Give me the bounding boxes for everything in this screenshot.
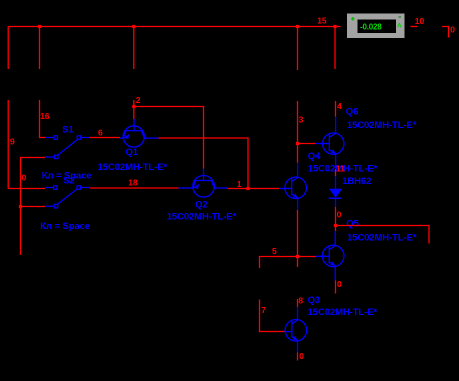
svg-text:0: 0 — [22, 173, 27, 183]
svg-text:-0.028: -0.028 — [360, 22, 382, 31]
svg-text:15C02MH-TL-E*: 15C02MH-TL-E* — [308, 307, 378, 318]
svg-text:5: 5 — [272, 246, 277, 256]
svg-text:Кл = Space: Кл = Space — [40, 221, 90, 232]
svg-text:2: 2 — [136, 95, 141, 105]
svg-text:10: 10 — [415, 16, 425, 26]
svg-text:15: 15 — [317, 16, 327, 26]
svg-text:S1: S1 — [62, 124, 74, 135]
svg-text:1: 1 — [237, 179, 242, 189]
svg-text:3: 3 — [299, 114, 304, 124]
svg-text:18: 18 — [128, 177, 138, 187]
svg-text:9: 9 — [10, 137, 15, 147]
svg-text:6: 6 — [98, 128, 103, 138]
svg-text:Q3: Q3 — [308, 295, 320, 306]
svg-text:0: 0 — [450, 24, 455, 34]
svg-text:S2: S2 — [63, 175, 74, 186]
svg-text:1BH62: 1BH62 — [342, 176, 371, 187]
svg-text:Q1: Q1 — [126, 147, 139, 158]
svg-text:Q6: Q6 — [346, 106, 358, 117]
svg-text:0: 0 — [299, 351, 304, 361]
svg-text:Q5: Q5 — [346, 219, 359, 230]
svg-text:11: 11 — [336, 163, 345, 173]
svg-text:Q4: Q4 — [308, 151, 321, 162]
svg-text:Q2: Q2 — [195, 200, 207, 211]
svg-text:15C02MH-TL-E*: 15C02MH-TL-E* — [347, 120, 417, 131]
svg-text:A: A — [397, 22, 402, 29]
svg-text:16: 16 — [40, 111, 50, 121]
svg-text:7: 7 — [261, 305, 266, 315]
svg-text:15C02MH-TL-E*: 15C02MH-TL-E* — [167, 212, 237, 223]
svg-text:0: 0 — [337, 279, 342, 289]
svg-text:0: 0 — [337, 210, 342, 220]
svg-text:15C02MH-TL-E*: 15C02MH-TL-E* — [98, 162, 168, 173]
svg-text:4: 4 — [337, 101, 342, 111]
svg-text:15C02MH-TL-E*: 15C02MH-TL-E* — [347, 232, 417, 243]
svg-text:8: 8 — [298, 296, 303, 306]
